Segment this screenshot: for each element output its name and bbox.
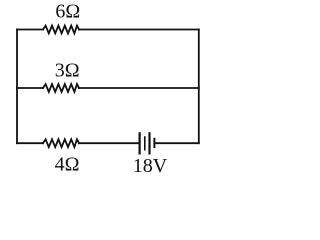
battery plate short 2 (153, 138, 155, 148)
svg-text:6Ω: 6Ω (55, 1, 80, 23)
resistor R2 3ohm (43, 84, 79, 92)
wire right vertical (198, 30, 200, 144)
svg-text:4Ω: 4Ω (55, 154, 80, 176)
battery B1 18V (140, 132, 155, 154)
wire bottom right segment (155, 142, 199, 144)
resistor R1 6ohm (43, 26, 79, 34)
wire left vertical (16, 30, 18, 144)
battery plate short 1 (144, 136, 146, 150)
wire middle left segment (17, 87, 43, 89)
battery plate long 1 (139, 132, 141, 154)
wire top left segment (17, 29, 43, 31)
battery plate long 2 (148, 132, 150, 154)
wire bottom middle segment (79, 142, 138, 144)
svg-text:3Ω: 3Ω (55, 59, 80, 81)
resistor R3 4ohm (43, 139, 79, 147)
wire bottom left segment (17, 142, 43, 144)
svg-text:18V: 18V (133, 155, 168, 176)
wire middle right segment (79, 87, 199, 89)
wire top right segment (79, 29, 199, 31)
